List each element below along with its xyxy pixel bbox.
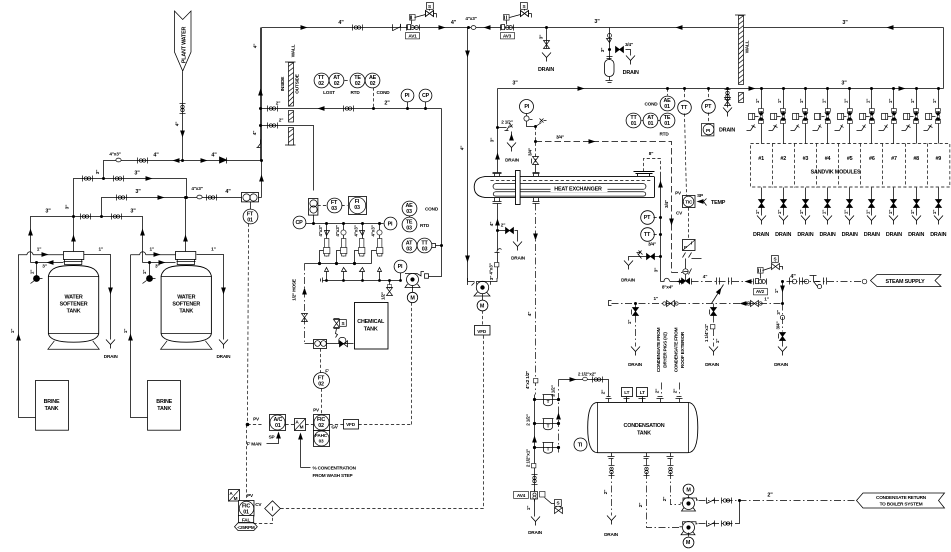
svg-text:2": 2" bbox=[767, 493, 773, 499]
svg-text:TANK: TANK bbox=[637, 431, 651, 437]
arrow up tank1 feed bbox=[28, 229, 33, 236]
banner STEAM SUPPLY bbox=[871, 275, 942, 287]
svg-text:F': F' bbox=[325, 369, 329, 374]
wire right riser to sandvik header bbox=[943, 28, 945, 89]
svg-text:4": 4" bbox=[225, 189, 231, 195]
svg-text:1": 1" bbox=[211, 247, 215, 252]
drain bbox=[513, 242, 522, 251]
svg-text:T: T bbox=[547, 423, 550, 428]
node 2.5 drain tee bbox=[496, 126, 499, 129]
sandvik module feed 4 bbox=[813, 87, 831, 144]
svg-text:CP: CP bbox=[422, 93, 430, 99]
svg-text:SOFTENER: SOFTENER bbox=[172, 302, 200, 308]
svg-text:AV4: AV4 bbox=[517, 493, 526, 498]
wire 3" eductor line bbox=[142, 260, 175, 283]
svg-text:1": 1" bbox=[123, 329, 128, 333]
arrow flow left bbox=[887, 25, 894, 30]
signal A/C01-A/M bbox=[286, 424, 295, 426]
control valve steam bbox=[680, 259, 692, 285]
arrow up riser bbox=[259, 175, 264, 182]
svg-text:2 1/2": 2 1/2" bbox=[526, 414, 531, 425]
svg-text:S: S bbox=[774, 256, 777, 261]
svg-text:2": 2" bbox=[655, 389, 660, 393]
converter A/M bbox=[295, 419, 306, 431]
banner CONDENSATE RETURN bbox=[857, 493, 945, 508]
svg-text:01: 01 bbox=[275, 423, 281, 429]
svg-text:1": 1" bbox=[777, 210, 782, 214]
svg-text:AV3: AV3 bbox=[503, 33, 512, 38]
wire 8" riser bbox=[660, 173, 662, 282]
wire line B 3" y=178 bbox=[102, 177, 105, 180]
drain bbox=[709, 347, 718, 356]
instrument CP bbox=[419, 89, 432, 102]
valve drain solid bbox=[498, 230, 506, 232]
node wash control tee bbox=[246, 423, 250, 427]
wire right 1" drain line bbox=[84, 247, 113, 340]
node junction bbox=[467, 26, 470, 29]
check valve flag bbox=[495, 249, 502, 253]
drip leg branch bbox=[609, 28, 611, 60]
valve union bbox=[112, 214, 122, 220]
drain bbox=[626, 56, 635, 65]
svg-text:3": 3" bbox=[65, 205, 70, 209]
wire drain branch 3" bbox=[546, 28, 548, 49]
svg-text:1": 1" bbox=[777, 99, 782, 103]
svg-text:2": 2" bbox=[279, 118, 283, 123]
drain bbox=[631, 347, 640, 356]
svg-text:3": 3" bbox=[135, 189, 141, 195]
svg-text:PI: PI bbox=[405, 93, 410, 99]
valve AV2 bbox=[754, 256, 783, 295]
needle valve bbox=[302, 314, 308, 322]
motor M bbox=[407, 292, 417, 302]
sandvik module drain 1 bbox=[753, 188, 769, 239]
svg-text:TANK: TANK bbox=[45, 406, 59, 412]
svg-text:4"x3": 4"x3" bbox=[335, 225, 340, 236]
node drain branch bbox=[545, 26, 548, 29]
condensation tank bbox=[588, 402, 698, 452]
valve AV3 bbox=[501, 3, 532, 39]
svg-text:02: 02 bbox=[318, 81, 324, 87]
instrument PI bbox=[394, 260, 407, 273]
arrow flow bbox=[146, 176, 153, 181]
svg-text:TIC: TIC bbox=[685, 199, 693, 204]
svg-text:1": 1" bbox=[888, 210, 893, 214]
svg-text:PLANT WATER: PLANT WATER bbox=[181, 27, 187, 64]
wire sandvik supply header 3" bbox=[498, 88, 944, 90]
svg-text:#1: #1 bbox=[758, 156, 764, 162]
signal bbox=[409, 216, 411, 218]
svg-text:TO BOILER SYSTEM: TO BOILER SYSTEM bbox=[880, 502, 923, 507]
HX nozzle bottom-2 bbox=[533, 198, 540, 204]
node line B join bbox=[185, 196, 188, 199]
wire to tank bbox=[327, 343, 354, 345]
HX nozzle top-left2 bbox=[533, 173, 540, 177]
svg-text:3/4": 3/4" bbox=[528, 148, 533, 156]
signal TIC to IP bbox=[688, 208, 690, 240]
svg-text:03: 03 bbox=[406, 226, 412, 232]
svg-text:3/4": 3/4" bbox=[776, 322, 781, 330]
node plant water tee bbox=[181, 159, 184, 162]
svg-text:3": 3" bbox=[600, 48, 605, 52]
instrument TT-03 bbox=[417, 238, 432, 253]
signal FT01 riser bottom bbox=[246, 425, 248, 501]
arrow bbox=[745, 279, 752, 284]
wire FE to riser bbox=[259, 197, 262, 199]
connector bbox=[432, 244, 436, 248]
pump condensate B bbox=[680, 522, 698, 535]
instrument TE-01 bbox=[660, 113, 675, 128]
arrow flow bbox=[301, 25, 308, 30]
svg-text:3": 3" bbox=[130, 209, 136, 215]
heat exchanger bbox=[474, 171, 654, 205]
instrument TT (steam) bbox=[684, 89, 686, 100]
svg-text:FROM WASH STEP: FROM WASH STEP bbox=[313, 473, 353, 478]
svg-text:DRYER PIGS (#2): DRYER PIGS (#2) bbox=[662, 332, 667, 368]
svg-text:4": 4" bbox=[253, 44, 258, 48]
diagonal riser to steam bbox=[712, 285, 724, 304]
svg-text:1": 1" bbox=[653, 296, 657, 301]
wire tank1 cap feed bbox=[73, 217, 75, 252]
svg-text:2": 2" bbox=[601, 390, 606, 394]
drain bbox=[106, 340, 115, 349]
node AE02 bbox=[372, 107, 375, 110]
valve AV4 bbox=[514, 490, 563, 514]
svg-text:#2: #2 bbox=[780, 156, 786, 162]
node bbox=[738, 499, 741, 502]
motor M A bbox=[683, 484, 694, 495]
flow element FE bbox=[242, 193, 259, 202]
svg-text:VFD: VFD bbox=[346, 422, 356, 427]
drain stub bbox=[389, 281, 391, 289]
svg-text:1/2" HOSE: 1/2" HOSE bbox=[292, 279, 297, 301]
svg-text:4"x3": 4"x3" bbox=[318, 225, 323, 236]
svg-text:1": 1" bbox=[910, 210, 915, 214]
svg-text:2": 2" bbox=[638, 503, 643, 507]
svg-text:#3: #3 bbox=[803, 156, 809, 162]
signal FT01 down bbox=[248, 224, 249, 425]
svg-text:3": 3" bbox=[45, 209, 51, 215]
sandvik module drain 2 bbox=[775, 188, 791, 239]
signal FIC02-VFD bbox=[330, 424, 344, 426]
steam trap 3 bbox=[533, 442, 560, 453]
converter A/M 2 bbox=[229, 490, 240, 502]
signal M-VFD bbox=[482, 311, 484, 326]
wire top main header bbox=[262, 27, 944, 29]
steam trap 1 bbox=[533, 395, 560, 406]
instrument TT-01 bbox=[642, 120, 644, 122]
water softener tank at x=48.4 bbox=[48, 252, 99, 350]
relief check on riser bbox=[257, 140, 261, 148]
svg-text:T: T bbox=[547, 447, 550, 452]
valve blowdown closed bbox=[616, 47, 624, 53]
svg-text:3": 3" bbox=[776, 310, 781, 314]
sandvik module feed 6 bbox=[857, 87, 875, 144]
node bbox=[72, 215, 75, 218]
svg-text:M: M bbox=[480, 303, 485, 309]
wire 2" lower wash line y=125 bbox=[261, 126, 314, 191]
svg-text:3": 3" bbox=[490, 138, 495, 142]
8 inch steam hook bbox=[644, 159, 661, 173]
instrument TT-02 bbox=[314, 73, 329, 88]
svg-text:01: 01 bbox=[243, 510, 249, 516]
VFD wash pump bbox=[344, 420, 359, 430]
controller FIC-01 bbox=[239, 501, 255, 517]
steam trap 2 bbox=[533, 419, 560, 430]
svg-text:VFD: VFD bbox=[477, 329, 487, 334]
svg-text:4"x3": 4"x3" bbox=[353, 225, 358, 236]
node riser tee bbox=[260, 159, 263, 162]
arrow up tank2 feed bbox=[140, 229, 145, 236]
svg-text:3/4": 3/4" bbox=[625, 42, 633, 47]
svg-text:PI: PI bbox=[388, 221, 393, 227]
sandvik modules block bbox=[751, 144, 950, 188]
node 2" upper tee bbox=[259, 107, 262, 110]
node bbox=[388, 279, 391, 282]
svg-text:3/4": 3/4" bbox=[648, 242, 656, 247]
svg-text:M: M bbox=[686, 540, 691, 546]
wire HX bottom outlet x=497 bbox=[497, 204, 499, 247]
svg-text:03: 03 bbox=[406, 247, 412, 253]
svg-text:1": 1" bbox=[10, 329, 15, 333]
svg-text:3": 3" bbox=[594, 19, 600, 25]
arrow up riser upper bbox=[258, 89, 263, 96]
valve union bbox=[138, 158, 148, 164]
computing relay I diamond bbox=[265, 501, 281, 516]
strainer bbox=[810, 276, 820, 287]
node 3/4 takeoff bbox=[534, 140, 537, 143]
svg-text:2 1/2"x2": 2 1/2"x2" bbox=[578, 372, 596, 377]
svg-text:LT: LT bbox=[624, 390, 629, 395]
svg-text:DRAIN: DRAIN bbox=[753, 232, 769, 238]
wire trap right rail bbox=[558, 380, 560, 453]
sandvik module drain 3 bbox=[797, 188, 813, 239]
valve union pair bbox=[353, 25, 363, 31]
signal FAL loop bbox=[254, 517, 273, 524]
instrument TE-02 bbox=[350, 73, 365, 88]
valve union bbox=[180, 104, 186, 114]
chemical collector line bbox=[313, 263, 372, 265]
svg-text:4": 4" bbox=[175, 122, 180, 126]
pump condensate A bbox=[680, 498, 698, 512]
svg-text:S: S bbox=[557, 500, 560, 505]
svg-text:03: 03 bbox=[422, 247, 428, 253]
arrow flow left bbox=[484, 25, 491, 30]
metering pump bbox=[305, 343, 314, 345]
svg-text:8"x4": 8"x4" bbox=[662, 285, 673, 290]
arrow flow bbox=[578, 86, 585, 91]
sandvik module drain 7 bbox=[886, 188, 902, 239]
svg-text:M: M bbox=[300, 425, 304, 430]
valve union bbox=[344, 106, 354, 112]
node steam tee bbox=[781, 280, 784, 283]
svg-text:DRAIN: DRAIN bbox=[797, 232, 813, 238]
tank bottom nozzles bbox=[608, 453, 615, 459]
instrument CP bbox=[293, 216, 306, 229]
svg-text:1": 1" bbox=[715, 339, 720, 343]
svg-text:TEMP: TEMP bbox=[711, 200, 726, 206]
svg-text:PI: PI bbox=[706, 128, 710, 133]
pump chemical wash P-1 bbox=[405, 272, 424, 288]
svg-text:DRAIN: DRAIN bbox=[774, 362, 789, 367]
svg-text:TI: TI bbox=[578, 442, 583, 448]
svg-text:1": 1" bbox=[932, 99, 937, 103]
svg-text:S: S bbox=[523, 4, 526, 9]
wire 2" upper wash line y=108 bbox=[261, 108, 442, 110]
wall right bbox=[735, 15, 750, 103]
svg-text:GV: GV bbox=[331, 425, 338, 430]
node 2" drain tee bbox=[496, 229, 499, 232]
arrow flow bbox=[158, 195, 165, 200]
svg-text:SP: SP bbox=[697, 193, 703, 198]
arrow down bbox=[180, 131, 185, 138]
valve 1" right bbox=[751, 301, 759, 307]
arrow flow bbox=[899, 86, 906, 91]
sandvik module feed 9 bbox=[924, 87, 941, 144]
controller FAHC-03 bbox=[314, 431, 330, 447]
svg-text:CONDENSATION: CONDENSATION bbox=[624, 423, 665, 429]
svg-text:1": 1" bbox=[149, 247, 153, 252]
svg-text:4": 4" bbox=[460, 146, 465, 150]
svg-text:DRAIN: DRAIN bbox=[623, 70, 639, 76]
hose tag bbox=[425, 274, 429, 278]
svg-text:TANK: TANK bbox=[67, 309, 81, 315]
arrow flow left bbox=[676, 25, 683, 30]
svg-text:1": 1" bbox=[774, 289, 779, 293]
wire condensate 4" dashdot bbox=[535, 204, 537, 395]
svg-text:#4: #4 bbox=[825, 156, 831, 162]
banner PLANT WATER bbox=[175, 11, 192, 71]
svg-text:4": 4" bbox=[489, 222, 494, 226]
wire PI drop to HX bbox=[535, 127, 537, 166]
svg-text:4": 4" bbox=[527, 312, 532, 316]
svg-text:01: 01 bbox=[664, 121, 670, 127]
svg-text:1": 1" bbox=[843, 99, 848, 103]
svg-text:2 1/2"x1": 2 1/2"x1" bbox=[526, 449, 531, 467]
alarm 25RPM hexagon bbox=[235, 523, 258, 531]
svg-text:M: M bbox=[234, 496, 238, 501]
svg-text:BRINE: BRINE bbox=[156, 399, 172, 405]
instrument PT HX bbox=[641, 211, 655, 225]
svg-text:PI: PI bbox=[524, 104, 529, 110]
svg-text:#6: #6 bbox=[869, 156, 875, 162]
svg-text:TANK: TANK bbox=[179, 309, 193, 315]
eccentric reducer bump bbox=[664, 278, 669, 281]
svg-text:03: 03 bbox=[406, 209, 412, 215]
svg-text:01: 01 bbox=[631, 121, 637, 127]
svg-text:DRAIN: DRAIN bbox=[604, 532, 619, 537]
svg-text:DRAIN: DRAIN bbox=[621, 278, 636, 283]
wire line D 3" y=216 bbox=[31, 217, 143, 263]
svg-text:<25RPM: <25RPM bbox=[237, 525, 254, 530]
wire wash return riser x=441 bbox=[429, 109, 442, 277]
sandvik module drain 8 bbox=[908, 188, 924, 239]
wire to drain bbox=[626, 50, 631, 56]
wire after valve bbox=[692, 281, 757, 283]
svg-text:#9: #9 bbox=[935, 156, 941, 162]
drain bbox=[723, 108, 732, 117]
sandvik module drain 9 bbox=[930, 188, 946, 239]
quill 3 bbox=[353, 222, 365, 282]
chemical tank bbox=[355, 303, 389, 350]
svg-text:RTD: RTD bbox=[350, 90, 360, 95]
svg-text:AV2: AV2 bbox=[756, 289, 765, 294]
svg-text:DRAIN: DRAIN bbox=[719, 128, 735, 134]
svg-text:FAHC: FAHC bbox=[315, 433, 328, 438]
svg-text:DRAIN: DRAIN bbox=[104, 354, 119, 359]
node top-left corner riser bbox=[261, 28, 263, 198]
svg-text:1": 1" bbox=[526, 506, 531, 510]
svg-text:AV1: AV1 bbox=[408, 33, 417, 38]
water softener tank at x=161.1 bbox=[161, 252, 212, 350]
sandvik module feed 1 bbox=[747, 87, 764, 144]
TEMP setpoint bbox=[699, 199, 707, 206]
valve AV1 bbox=[406, 3, 437, 39]
svg-text:TANK: TANK bbox=[157, 406, 171, 412]
instrument TI bbox=[574, 438, 587, 451]
node bbox=[100, 215, 103, 218]
svg-text:RTD: RTD bbox=[420, 223, 430, 228]
svg-text:DRAIN: DRAIN bbox=[908, 232, 924, 238]
wire steam supply 4" bbox=[661, 281, 665, 283]
signal AE02 to line bbox=[373, 88, 375, 109]
svg-text:02: 02 bbox=[318, 423, 324, 429]
svg-text:3/4": 3/4" bbox=[556, 135, 564, 140]
wire condensate return 2" bbox=[740, 500, 857, 502]
svg-text:3": 3" bbox=[95, 170, 100, 174]
svg-text:03: 03 bbox=[354, 205, 360, 211]
svg-text:01: 01 bbox=[648, 121, 654, 127]
svg-text:2": 2" bbox=[662, 497, 667, 501]
svg-text:CONDENSATE FROM: CONDENSATE FROM bbox=[673, 327, 678, 372]
drain bbox=[624, 261, 633, 270]
svg-text:DRAIN: DRAIN bbox=[511, 256, 526, 261]
svg-text:DRAIN: DRAIN bbox=[505, 158, 520, 163]
drain bbox=[542, 53, 551, 62]
valve union bbox=[83, 176, 93, 182]
svg-text:03: 03 bbox=[319, 439, 324, 444]
svg-text:HEAT EXCHANGER: HEAT EXCHANGER bbox=[554, 186, 602, 192]
svg-text:2 1/2": 2 1/2" bbox=[551, 385, 556, 396]
svg-text:4": 4" bbox=[338, 20, 344, 26]
svg-text:BRINE: BRINE bbox=[44, 399, 60, 405]
svg-text:RTD: RTD bbox=[659, 132, 669, 137]
svg-text:2 1/2": 2 1/2" bbox=[501, 119, 512, 124]
bottom drop drain bbox=[611, 459, 613, 516]
svg-text:3": 3" bbox=[512, 81, 518, 87]
wire line C 3" y=197 bbox=[102, 198, 243, 217]
svg-text:4": 4" bbox=[451, 20, 457, 26]
svg-text:03: 03 bbox=[331, 206, 337, 212]
instrument PI inline bbox=[384, 217, 397, 230]
svg-text:1": 1" bbox=[37, 247, 41, 252]
svg-text:1": 1" bbox=[98, 247, 102, 252]
instrument AT-03 bbox=[402, 238, 417, 253]
svg-text:I: I bbox=[691, 241, 692, 246]
wire trap drain leg bbox=[534, 464, 536, 517]
wire left riser 4" x=260 bbox=[260, 28, 262, 109]
svg-text:DRAIN: DRAIN bbox=[705, 362, 720, 367]
svg-text:COND: COND bbox=[425, 207, 439, 212]
check valve bbox=[393, 24, 401, 31]
wire trap outlet to cond tank bbox=[559, 380, 609, 397]
svg-text:3": 3" bbox=[134, 171, 140, 177]
wire HX feed riser x=497 bbox=[497, 89, 499, 173]
svg-text:2": 2" bbox=[673, 389, 678, 393]
svg-text:WALL: WALL bbox=[745, 40, 750, 53]
drain bbox=[219, 340, 228, 349]
condensate from lines bbox=[661, 383, 663, 397]
